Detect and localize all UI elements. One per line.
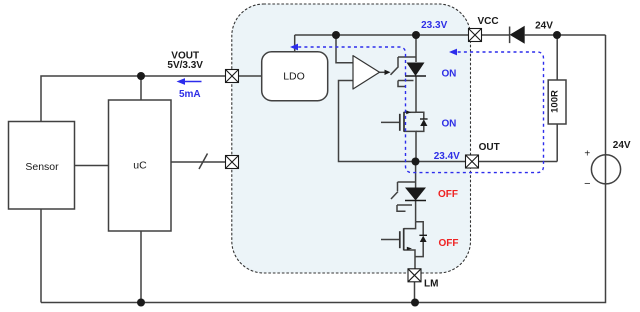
svg-text:LM: LM bbox=[424, 279, 438, 290]
svg-text:23.3V: 23.3V bbox=[421, 20, 447, 31]
svg-text:24V: 24V bbox=[613, 140, 631, 151]
svg-text:23.4V: 23.4V bbox=[434, 151, 460, 162]
svg-text:LDO: LDO bbox=[283, 70, 305, 82]
svg-text:−: − bbox=[584, 178, 590, 190]
svg-text:ON: ON bbox=[441, 69, 456, 80]
svg-text:OUT: OUT bbox=[479, 142, 500, 153]
svg-text:OFF: OFF bbox=[438, 189, 458, 200]
svg-text:+: + bbox=[584, 149, 590, 160]
svg-text:5V/3.3V: 5V/3.3V bbox=[167, 60, 203, 71]
svg-text:ON: ON bbox=[441, 118, 456, 129]
svg-text:100R: 100R bbox=[549, 90, 560, 113]
svg-text:VCC: VCC bbox=[477, 16, 498, 27]
svg-text:OFF: OFF bbox=[439, 238, 459, 249]
svg-text:5mA: 5mA bbox=[179, 89, 201, 100]
svg-text:uC: uC bbox=[133, 160, 147, 172]
svg-text:24V: 24V bbox=[535, 21, 553, 32]
svg-text:Sensor: Sensor bbox=[25, 161, 59, 173]
